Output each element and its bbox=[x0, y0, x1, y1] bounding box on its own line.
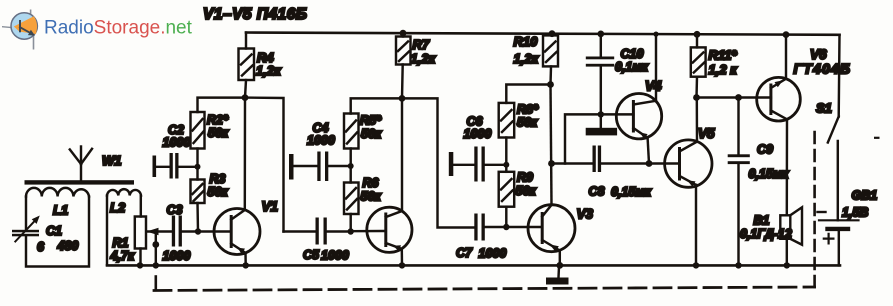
antenna W1 bbox=[70, 147, 92, 181]
resistor R9 bbox=[499, 172, 515, 227]
wire: V3 emitter to rail bbox=[559, 251, 561, 266]
node: V5 emitter on rail bbox=[693, 262, 699, 268]
wire: V4 base line bbox=[565, 114, 633, 163]
svg-text:R1: R1 bbox=[113, 236, 129, 250]
node: V4 emitter junction bbox=[646, 160, 653, 167]
node: speaker bottom on rail bbox=[784, 262, 790, 268]
svg-text:R9: R9 bbox=[517, 171, 533, 185]
resistor R4 bbox=[239, 33, 255, 98]
node: R10 bottom junction bbox=[547, 81, 554, 88]
capacitor C5 bbox=[284, 218, 351, 245]
node: R2/R3/C2 junction bbox=[195, 164, 201, 170]
wire: V1 emitter to rail bbox=[244, 253, 247, 266]
wire: junction to C5 drop bbox=[245, 98, 284, 232]
node: C10/V4 base junction bbox=[598, 111, 604, 117]
svg-text:V1: V1 bbox=[262, 199, 279, 214]
svg-text:56к: 56к bbox=[516, 184, 537, 198]
svg-text:R2*: R2* bbox=[207, 113, 229, 127]
wire: V4 emitter down bbox=[648, 138, 649, 164]
svg-text:1000: 1000 bbox=[479, 247, 507, 261]
node: C10 top on rail bbox=[597, 31, 604, 38]
wire: R1 wiper to C3 bbox=[147, 230, 172, 232]
capacitor C8 bbox=[593, 146, 680, 173]
node: R7 top on rail bbox=[400, 30, 407, 37]
svg-text:6: 6 bbox=[37, 240, 45, 254]
svg-text:R3: R3 bbox=[210, 172, 226, 186]
svg-text:R5*: R5* bbox=[360, 114, 382, 128]
node: blob on wiper ground riser bbox=[152, 241, 159, 248]
battery GB1 bbox=[818, 141, 859, 265]
capacitor C10 bbox=[586, 34, 617, 136]
inductor L2 loop with scallops bbox=[107, 189, 141, 264]
node: wiper riser on rail bbox=[153, 262, 159, 268]
svg-text:1000: 1000 bbox=[307, 134, 335, 148]
capacitor C3 bbox=[172, 216, 198, 247]
svg-text:0,15мк: 0,15мк bbox=[749, 167, 790, 181]
wire: V4 collector up bbox=[655, 34, 657, 101]
svg-text:C7: C7 bbox=[456, 246, 473, 260]
wire: V2 emitter to rail bbox=[401, 249, 404, 266]
wire: V3 base line bbox=[506, 226, 542, 228]
svg-text:R7: R7 bbox=[413, 37, 430, 52]
svg-text:C10: C10 bbox=[621, 47, 644, 61]
svg-text:0,1мк: 0,1мк bbox=[615, 60, 649, 74]
svg-text:V1–V5 П416Б: V1–V5 П416Б bbox=[203, 6, 307, 23]
svg-text:C1: C1 bbox=[46, 224, 62, 238]
node: V2 emitter on rail bbox=[399, 262, 405, 268]
node: R5/R6/C4 junction bbox=[348, 163, 354, 169]
wire: R10 column down to V3 bbox=[551, 85, 552, 205]
resistor R10 bbox=[543, 34, 558, 85]
svg-text:56к: 56к bbox=[517, 116, 538, 130]
svg-text:1,2к: 1,2к bbox=[411, 51, 437, 66]
wire: junction to R5 column bbox=[351, 98, 402, 113]
wire: wiper ground riser bbox=[155, 232, 157, 266]
capacitor C9 bbox=[728, 98, 750, 266]
scan speck bbox=[874, 137, 880, 139]
svg-text:1000: 1000 bbox=[163, 249, 191, 263]
svg-text:0,15мк: 0,15мк bbox=[611, 185, 652, 199]
transistor V1 bbox=[214, 209, 260, 255]
wire: C8 line bbox=[552, 162, 593, 164]
svg-text:RadioStorage.net: RadioStorage.net bbox=[44, 18, 193, 39]
resistor R2* bbox=[191, 112, 205, 180]
speaker B1 bbox=[780, 207, 802, 265]
node: base node V1 bbox=[195, 228, 201, 234]
logo RadioStorage.net bbox=[2, 10, 193, 50]
svg-text:56к: 56к bbox=[361, 190, 382, 204]
capacitor C7 bbox=[474, 214, 506, 241]
svg-text:L1: L1 bbox=[53, 203, 68, 218]
svg-text:1000: 1000 bbox=[321, 249, 349, 263]
wire: junction to C7 drop bbox=[402, 98, 474, 227]
svg-text:4,7к: 4,7к bbox=[110, 249, 135, 263]
node: R11 top on rail bbox=[694, 31, 701, 38]
svg-text:R8*: R8* bbox=[517, 103, 539, 117]
wire: junction to R8 column bbox=[506, 85, 550, 103]
capacitor C4 bbox=[289, 152, 351, 182]
node: R4 bottom junction bbox=[242, 94, 249, 101]
transistor V4 bbox=[616, 94, 661, 140]
node: R8/R9/C6 junction bbox=[503, 162, 509, 168]
svg-text:1000: 1000 bbox=[464, 127, 492, 141]
svg-text:56к: 56к bbox=[208, 126, 229, 140]
inductor L1 loop with scallops bbox=[26, 188, 89, 267]
svg-text:B1: B1 bbox=[754, 214, 770, 228]
resistor R11* bbox=[691, 34, 706, 97]
svg-text:C3: C3 bbox=[167, 203, 183, 217]
svg-text:1,2к: 1,2к bbox=[256, 63, 282, 78]
wire: top supply rail bbox=[246, 33, 840, 35]
svg-text:R6: R6 bbox=[363, 176, 380, 190]
antenna bus bar bbox=[25, 180, 135, 184]
transistor V5 bbox=[665, 140, 712, 187]
variable capacitor C1 bbox=[12, 216, 40, 242]
resistor R6 bbox=[344, 183, 359, 232]
resistor R8* bbox=[499, 103, 515, 172]
svg-text:GB1: GB1 bbox=[852, 189, 878, 203]
resistor R1 (in L2 right side) bbox=[135, 217, 146, 249]
svg-text:L2: L2 bbox=[110, 200, 126, 215]
wire: V1 collector up bbox=[244, 98, 247, 210]
svg-text:C9: C9 bbox=[757, 143, 773, 157]
transistor V2 bbox=[367, 207, 412, 252]
resistor R5* bbox=[344, 114, 359, 183]
node: V3 emitter on rail bbox=[556, 262, 563, 269]
svg-text:480: 480 bbox=[57, 239, 79, 253]
svg-text:C8: C8 bbox=[589, 185, 605, 199]
node: V6 emitter on rail bbox=[783, 31, 790, 38]
svg-text:V3: V3 bbox=[577, 207, 594, 222]
wire: V2 collector up bbox=[401, 98, 403, 211]
svg-text:V4: V4 bbox=[645, 79, 662, 94]
node: R11 bottom junction bbox=[693, 94, 700, 101]
svg-text:W1: W1 bbox=[102, 153, 122, 168]
node: C9 top junction bbox=[735, 94, 742, 101]
svg-text:1,2к: 1,2к bbox=[514, 51, 540, 66]
node: C9 bottom on rail bbox=[735, 262, 741, 268]
svg-text:1,2 к: 1,2 к bbox=[709, 62, 739, 77]
svg-text:56к: 56к bbox=[208, 185, 229, 199]
svg-text:V5: V5 bbox=[698, 126, 715, 141]
capacitor C6 bbox=[449, 147, 507, 182]
svg-text:1,5В: 1,5В bbox=[842, 206, 868, 220]
node: R1 bottom on rail bbox=[137, 262, 143, 268]
switch S1 bbox=[828, 35, 840, 143]
resistor R3 bbox=[191, 180, 205, 232]
wire: junction to R2 column bbox=[198, 98, 246, 112]
capacitor C2 bbox=[153, 153, 198, 179]
svg-text:S1: S1 bbox=[816, 101, 832, 116]
wire: dash below R1 wiper ground bbox=[155, 277, 158, 290]
chassis stub below V3 bbox=[557, 267, 560, 278]
svg-text:ГТ404Б: ГТ404Б bbox=[794, 61, 852, 77]
wire: V5 collector up bbox=[696, 98, 699, 142]
R1 wiper arrow bbox=[147, 228, 159, 235]
wire: V5 emitter to rail bbox=[695, 185, 697, 266]
svg-text:56к: 56к bbox=[361, 127, 382, 141]
wire: dashed riser right bbox=[813, 131, 816, 288]
wire: V1 base line bbox=[198, 230, 231, 232]
wire: V6 collector to speaker bbox=[786, 119, 789, 215]
transistor V6 bbox=[757, 77, 801, 121]
node: base node V3 bbox=[503, 224, 509, 230]
node: R7 bottom junction bbox=[399, 95, 406, 102]
wire: dashed negative rail bbox=[154, 287, 815, 291]
svg-text:1000: 1000 bbox=[163, 136, 191, 150]
wire: bottom common rail bbox=[107, 264, 840, 267]
resistor R7 bbox=[396, 33, 411, 98]
svg-text:R10: R10 bbox=[514, 34, 539, 49]
wire: V2 base line bbox=[351, 230, 386, 233]
node: V1 emitter on rail bbox=[243, 262, 249, 268]
node: C8 left junction bbox=[548, 160, 555, 167]
wire: V6 base line bbox=[697, 96, 771, 98]
svg-text:C5: C5 bbox=[303, 248, 320, 262]
node: R10 top on rail bbox=[549, 30, 556, 37]
svg-text:0,1ГД-12: 0,1ГД-12 bbox=[740, 227, 792, 241]
svg-text:R11*: R11* bbox=[709, 48, 738, 63]
node: base node V2 bbox=[348, 228, 354, 234]
wire: V6 emitter to rail bbox=[785, 35, 787, 79]
transistor V3 bbox=[528, 205, 575, 252]
